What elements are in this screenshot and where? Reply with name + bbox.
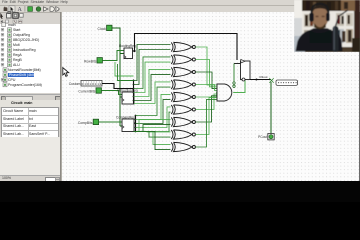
wire bit3 to G3 top <box>134 82 171 104</box>
bottom letterbox <box>0 181 360 202</box>
wire bit3 to G3 bottom <box>136 87 171 115</box>
wire bit5 to G5 bottom <box>136 112 171 131</box>
node dots bus B <box>135 115 137 133</box>
toolbar <box>0 6 360 12</box>
attribute header <box>0 100 60 107</box>
circuit svg <box>61 12 360 181</box>
svg-text:PCout: PCout <box>258 135 267 139</box>
wire bus Custom to R2 <box>102 84 134 89</box>
XNOR gate G2 <box>171 67 192 76</box>
svg-text:RowBits: RowBits <box>84 59 97 63</box>
clock pin CLK <box>98 25 112 31</box>
mouse cursor <box>63 68 69 77</box>
explorer tree <box>0 24 61 93</box>
wire R1 fan down left 2 <box>118 64 134 81</box>
menu bar <box>0 0 360 6</box>
wire G0 output to AND input 0 <box>196 47 218 85</box>
canvas <box>61 12 360 181</box>
wire bit0 to G0 top <box>134 45 171 81</box>
node junction on R1 bus <box>133 50 135 52</box>
tree horizontal scrollbar <box>0 94 60 100</box>
wires right routing XNOR outputs to AND <box>196 47 218 147</box>
wire bit7 to G7 bottom <box>134 132 171 150</box>
wire CompBits to R3 <box>99 121 122 123</box>
bus B splitter (R3 outputs) <box>134 116 136 132</box>
register R3 CompareReg <box>116 115 135 131</box>
wire G4 output to AND input 4 <box>196 92 218 97</box>
wire CurrentBits to R2 <box>101 91 122 95</box>
bit display array OUT <box>276 80 298 85</box>
wire RowBits to R1 <box>102 51 124 61</box>
wire bit1 to G1 bottom <box>134 62 171 92</box>
bit display array IN (Custom) <box>69 80 102 86</box>
register R1 RoutingReg <box>119 44 136 58</box>
wire bit2 to G2 bottom <box>134 75 171 101</box>
wire clock net <box>112 28 124 126</box>
XNOR gate G8 <box>171 142 192 151</box>
XNOR gate G6 <box>171 117 192 126</box>
canvas right border <box>359 12 360 181</box>
attribute table <box>1 107 59 139</box>
wire to PCout <box>270 82 272 134</box>
node rings <box>233 82 235 84</box>
wire G8 output to AND input 8 <box>196 99 218 147</box>
person <box>296 4 343 51</box>
svg-text:A: A <box>18 7 23 13</box>
zoom row <box>0 175 60 182</box>
wire bit1 to G1 top <box>134 57 171 89</box>
input pin RowBits <box>84 58 102 64</box>
wire G1 output to AND input 1 <box>196 60 218 87</box>
XNOR gate G3 <box>171 80 192 89</box>
input pin CurrentBits <box>78 88 101 94</box>
constant stub at R4 <box>234 63 241 65</box>
XNOR gate G5 <box>171 105 192 114</box>
bus A splitter (R2 outputs) <box>133 80 135 104</box>
XNOR gate column G0..G8 <box>171 42 195 151</box>
XNOR gate G7 <box>171 130 192 139</box>
wire bit2 to G2 top <box>134 69 171 96</box>
svg-text:R2out: R2out <box>260 75 268 79</box>
wire bus R1 to R4 (top black bus) <box>133 34 238 61</box>
wire bit6 to G6 top <box>139 119 171 131</box>
wire bit6 to G6 bottom <box>134 132 171 138</box>
wire bit7 to G7 top <box>134 132 171 145</box>
wire G6 output to AND input 6 <box>196 96 218 122</box>
wire bit5 to G5 top <box>136 107 171 128</box>
register R2 InstructionReg <box>117 88 138 104</box>
svg-text:CurrentBits: CurrentBits <box>78 90 95 94</box>
output pin PCout <box>258 134 274 140</box>
microphone <box>333 26 339 52</box>
toolbar icons <box>4 6 60 13</box>
wire G3 output to AND input 3 <box>196 85 218 91</box>
svg-text:Clock: Clock <box>98 27 107 31</box>
node dots bus A <box>133 80 135 102</box>
wire bit4 to G4 bottom <box>136 100 171 124</box>
register R4 PC <box>241 59 251 81</box>
wire G7 output to AND input 7 <box>196 98 218 135</box>
XNOR gate G0 <box>171 42 192 51</box>
wire bus R4 to display <box>250 79 271 81</box>
wire bit4 to G4 top <box>136 94 171 119</box>
left panel second toolbar icons <box>0 12 23 24</box>
wire G2 output to AND input 2 <box>196 72 218 89</box>
wire G5 output to AND input 5 <box>196 94 218 110</box>
node junction <box>256 79 258 81</box>
wire bit0 to G0 bottom <box>134 50 171 85</box>
AND gate U10 <box>217 84 232 101</box>
left panel lower area <box>0 137 61 175</box>
app window <box>0 0 360 181</box>
splitter S3 <box>269 78 273 83</box>
wires left routing to XNOR inputs <box>134 45 171 150</box>
input pin CompBits <box>78 119 99 125</box>
XNOR gate G1 <box>171 55 192 64</box>
wire R1 fan down left <box>115 62 134 76</box>
webcam <box>294 0 360 52</box>
svg-text:CompBits: CompBits <box>78 121 93 125</box>
XNOR gate G4 <box>171 92 192 101</box>
svg-text:Custom: Custom <box>69 82 81 86</box>
wire AND output to R4 enable <box>233 80 245 93</box>
